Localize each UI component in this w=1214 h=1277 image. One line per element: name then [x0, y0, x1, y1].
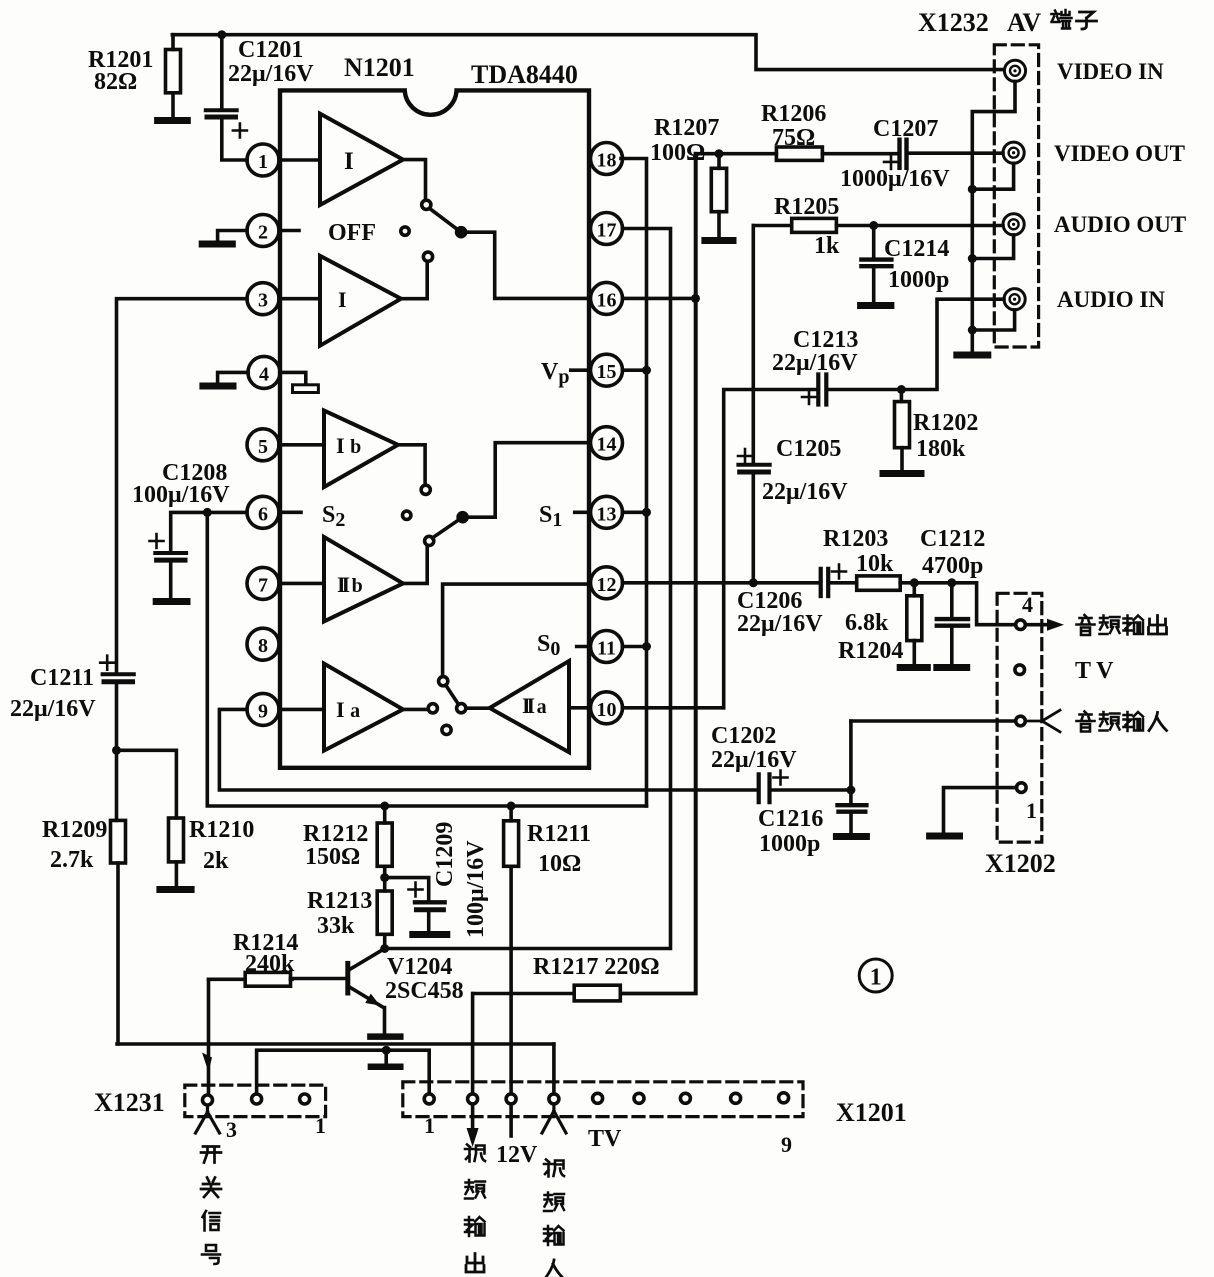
ground R1207	[705, 237, 733, 244]
X1231 pin 3(left)	[203, 1095, 213, 1105]
X1201 pin 6	[634, 1093, 644, 1103]
connector X1201 dashed box	[403, 1082, 803, 1117]
svg-text:R1206: R1206	[761, 101, 826, 127]
svg-text:10: 10	[597, 699, 617, 721]
resistor R1207	[650, 115, 727, 237]
pin 16	[591, 282, 623, 314]
svg-text:4: 4	[259, 363, 269, 385]
junction C1216/audio-in riser	[846, 786, 855, 795]
pin 3	[247, 283, 279, 315]
resistor R1204	[838, 583, 922, 664]
ground R1204	[900, 664, 927, 671]
svg-text:1: 1	[1026, 798, 1037, 823]
ground at pin 2	[202, 231, 247, 245]
amplifier II a (pin10, points left)	[490, 661, 569, 752]
svg-text:TV: TV	[588, 1126, 622, 1152]
junction pin13/rail	[642, 508, 651, 517]
wire switch a right contact to amp II a	[466, 706, 490, 710]
resistor R1209	[42, 750, 126, 1044]
svg-text:AUDIO IN: AUDIO IN	[1057, 287, 1165, 312]
wire S2 rail down and bottom bus to corner	[207, 512, 646, 806]
svg-text:4: 4	[1022, 592, 1033, 617]
pin 5	[247, 429, 279, 461]
junction R1205/C1214	[869, 221, 878, 230]
svg-text:TDA8440: TDA8440	[471, 60, 578, 89]
svg-text:6.8k: 6.8k	[845, 610, 889, 636]
X1202 pin 4 circle	[1016, 620, 1026, 630]
wire pin 9 to under-IC line	[219, 709, 757, 790]
svg-text:1: 1	[870, 965, 882, 991]
switch b top contact	[421, 485, 430, 494]
ground emitter bar	[370, 1033, 400, 1040]
svg-text:I b: I b	[336, 433, 361, 458]
chassis box symbol at pin4	[293, 385, 319, 393]
connector X1202 dashed box	[997, 593, 1042, 842]
wire pin4 stub to chassis box	[280, 372, 306, 382]
pin 2	[247, 215, 279, 247]
wire S0 stub	[577, 645, 590, 649]
wire VIDEO OUT jack to bus	[972, 163, 1013, 189]
resistor R1203	[823, 526, 952, 590]
svg-text:75Ω: 75Ω	[772, 125, 815, 151]
pin 7	[247, 567, 279, 599]
junction top rail / C1201	[217, 30, 226, 39]
pin 11	[591, 631, 623, 663]
svg-text:9: 9	[258, 700, 268, 722]
X1202 TV pin circle	[1015, 665, 1025, 675]
svg-text:C1212: C1212	[920, 526, 985, 552]
amplifier I a (pin9)	[324, 664, 403, 751]
X1202 audio-in pin circle	[1016, 716, 1026, 726]
svg-text:2.7k: 2.7k	[50, 847, 94, 873]
svg-text:100μ/16V: 100μ/16V	[463, 840, 489, 938]
label 视频输出 column	[465, 1145, 485, 1273]
pin 18	[591, 143, 623, 175]
resistor R1205	[753, 194, 1003, 259]
svg-text:22μ/16V: 22μ/16V	[10, 696, 96, 722]
svg-text:C1201: C1201	[238, 37, 303, 63]
capacitor C1202 electrolytic	[711, 723, 851, 802]
RCA jack AUDIO IN	[1004, 289, 1025, 310]
junction bus/video out	[968, 185, 977, 194]
svg-text:T V: T V	[1075, 658, 1114, 684]
svg-text:S1: S1	[539, 502, 562, 531]
svg-text:VIDEO IN: VIDEO IN	[1057, 59, 1164, 84]
amp I b output wire	[398, 445, 425, 485]
svg-text:100μ/16V: 100μ/16V	[132, 482, 230, 508]
svg-text:22μ/16V: 22μ/16V	[762, 479, 848, 505]
switch a top contact	[439, 677, 448, 686]
ground R1202	[883, 470, 921, 477]
junction bus/audio in	[968, 326, 977, 335]
RCA jack VIDEO OUT	[1003, 142, 1024, 163]
svg-text:C1205: C1205	[776, 436, 841, 462]
capacitor C1205 electrolytic	[738, 436, 848, 583]
pin 10	[591, 692, 623, 724]
svg-text:X1231: X1231	[94, 1088, 165, 1117]
junction pin15/rail	[642, 366, 651, 375]
AV terminal glyph (zi)	[1077, 12, 1097, 29]
svg-text:22μ/16V: 22μ/16V	[228, 61, 314, 87]
wire pin 11 to rail	[623, 645, 647, 649]
svg-text:2: 2	[258, 222, 268, 244]
RCA jack VIDEO IN	[1004, 60, 1025, 81]
X1201 pin 7	[680, 1093, 690, 1103]
svg-text:14: 14	[597, 434, 617, 456]
svg-text:12V: 12V	[496, 1142, 538, 1168]
audio in arrow fork	[1026, 710, 1060, 732]
svg-text:R1213: R1213	[307, 888, 372, 914]
wire pin12 internal to switch a	[443, 584, 589, 676]
wire video-out row	[696, 152, 898, 156]
svg-text:22μ/16V: 22μ/16V	[711, 747, 797, 773]
capacitor C1206 electrolytic	[737, 565, 857, 638]
svg-text:R1203: R1203	[823, 526, 888, 552]
svg-text:R1204: R1204	[838, 638, 903, 664]
svg-text:R1207: R1207	[654, 115, 719, 141]
svg-text:5: 5	[258, 436, 268, 458]
IC N1201 TDA8440 body outline with notch	[280, 90, 589, 767]
X1201 pin 1	[424, 1094, 434, 1104]
svg-text:33k: 33k	[317, 913, 355, 939]
svg-text:S2: S2	[322, 502, 345, 531]
wire C1208 corner to pin 6	[171, 512, 247, 550]
X1201 pin 2 video out	[468, 1094, 478, 1104]
label 音频输入	[1077, 712, 1167, 732]
wire rail695: R1206 wire down to R1217	[620, 154, 695, 994]
wire switch common to pin 16	[461, 232, 589, 298]
ground R1210	[160, 886, 191, 893]
svg-text:10Ω: 10Ω	[538, 851, 581, 877]
svg-text:15: 15	[597, 361, 617, 383]
svg-text:X1232: X1232	[918, 8, 989, 37]
svg-text:3: 3	[258, 290, 268, 312]
svg-text:12: 12	[597, 574, 617, 596]
pin 8	[247, 628, 279, 660]
AV terminal glyph (duan)	[1052, 10, 1072, 29]
wire switch signal riser	[207, 979, 211, 1093]
wire amp inputs stubs	[279, 160, 324, 709]
svg-text:X1202: X1202	[985, 849, 1056, 878]
wire pin 10 wrap	[623, 706, 724, 710]
svg-text:C1209: C1209	[432, 822, 458, 887]
capacitor C1208 electrolytic	[132, 460, 230, 598]
wire S1 stub	[575, 510, 590, 514]
capacitor C1207 electrolytic	[840, 116, 1003, 192]
switch lever (b group)	[432, 517, 462, 538]
resistor R1210	[169, 817, 255, 886]
switch lever (top group)	[430, 209, 461, 233]
X1202 pin 1 circle	[1017, 783, 1027, 793]
svg-text:I a: I a	[336, 697, 360, 722]
ground X1202 pin1	[930, 833, 960, 840]
svg-text:OFF: OFF	[328, 220, 376, 246]
svg-text:9: 9	[781, 1132, 792, 1157]
label 音频输出	[1077, 615, 1167, 635]
svg-text:R1202: R1202	[913, 410, 978, 436]
wire pin 13 to rail	[623, 510, 647, 514]
connector X1231 dashed box	[185, 1085, 326, 1117]
ground C1214	[861, 302, 891, 309]
switch group top: amp I output wire	[403, 160, 426, 200]
wire C1205 rail (R1205 left corner down to pin12 wire)	[751, 226, 755, 463]
junction C1211 line / R1210 branch	[112, 746, 121, 755]
ground at pin 4 (left)	[203, 372, 248, 386]
wire pin 16 to R1206 rail	[623, 297, 696, 301]
junction pin16/rail695	[691, 294, 700, 303]
capacitor C1214	[861, 226, 949, 303]
wire pin3 line bottom to TV video input	[552, 1044, 556, 1093]
svg-text:1000p: 1000p	[759, 831, 820, 857]
switch a right contact	[457, 704, 466, 713]
ground R1201	[158, 117, 188, 124]
svg-text:22μ/16V: 22μ/16V	[772, 350, 858, 376]
wire pin 17 down to collector	[386, 229, 671, 949]
pin 13	[591, 496, 623, 528]
video out arrow below pin 2	[467, 1104, 479, 1147]
switch b OFF contact	[403, 511, 411, 519]
amp I a output wire	[403, 708, 428, 712]
svg-text:AUDIO OUT: AUDIO OUT	[1054, 212, 1186, 237]
svg-text:1: 1	[258, 151, 268, 173]
svg-text:C1207: C1207	[873, 116, 938, 142]
X1201 pin 3 12V	[506, 1094, 516, 1104]
svg-text:17: 17	[597, 220, 617, 242]
wire VIDEO IN jack to ground bus	[972, 81, 1015, 351]
amplifier II b (pin7)	[324, 537, 403, 621]
svg-text:10k: 10k	[856, 551, 894, 577]
svg-text:1000μ/16V: 1000μ/16V	[840, 166, 950, 192]
svg-text:R1205: R1205	[774, 194, 839, 220]
ground C1216	[836, 833, 866, 840]
junction line2 ground	[382, 1046, 391, 1055]
svg-text:240k: 240k	[245, 951, 295, 977]
amp I (pin3) output wire to contact	[401, 262, 427, 298]
wire pin2 stub	[279, 229, 299, 233]
resistor R1212	[303, 806, 392, 891]
pin 14	[591, 427, 623, 459]
amplifier I (pin3)	[320, 256, 401, 346]
svg-text:180k: 180k	[916, 436, 966, 462]
label 开关信号 column	[201, 1147, 221, 1265]
svg-text:16: 16	[597, 289, 617, 311]
junction bus/R1211	[507, 802, 516, 811]
wire pin 18 to +12V rail	[621, 159, 647, 807]
capacitor C1201 electrolytic	[206, 35, 314, 160]
ground C1208	[156, 598, 187, 605]
capacitor C1209 electrolytic	[385, 822, 489, 938]
svg-text:2SC458: 2SC458	[385, 978, 464, 1004]
label 视频输入 column	[544, 1160, 564, 1277]
amp II b output wire to contact	[403, 547, 427, 584]
switch OFF center contact	[401, 227, 409, 235]
wire line2 X1231 pin2 to X1201 pin1	[257, 1050, 430, 1094]
svg-text:1k: 1k	[814, 233, 840, 259]
junction bus/R1212	[380, 802, 389, 811]
svg-text:3: 3	[226, 1117, 237, 1142]
wire audio input to pin	[851, 719, 1016, 723]
transistor V1204 2SC458	[291, 949, 464, 1033]
switch bottom contact circle	[423, 252, 432, 261]
wire amp II a input to pin 10	[569, 706, 589, 710]
svg-text:R1209: R1209	[42, 817, 107, 843]
svg-text:18: 18	[597, 150, 617, 172]
ground X1232 bus	[957, 352, 988, 359]
wire pin 15 to rail	[623, 368, 647, 372]
switch lever (a group)	[446, 685, 459, 704]
svg-text:Vp: Vp	[541, 359, 569, 388]
svg-text:II a: II a	[522, 693, 547, 718]
switch common dot (top group)	[457, 228, 466, 237]
X1231 pin 2	[252, 1094, 262, 1104]
svg-text:1: 1	[424, 1113, 435, 1138]
svg-text:1000p: 1000p	[888, 267, 949, 293]
svg-text:N1201: N1201	[344, 53, 415, 82]
svg-text:X1201: X1201	[836, 1098, 907, 1127]
fork arrow below X1231 pin	[196, 1105, 220, 1133]
junction C1208 wire / S2 rail	[203, 508, 212, 517]
junction pin11/rail	[642, 642, 651, 651]
junction R1207 top	[715, 149, 724, 158]
capacitor C1216	[758, 790, 866, 857]
resistor R1213	[307, 888, 392, 949]
switch top contact circle	[422, 200, 431, 209]
resistor R1214	[209, 930, 299, 986]
svg-text:VIDEO OUT: VIDEO OUT	[1054, 141, 1185, 166]
svg-text:R1217 220Ω: R1217 220Ω	[533, 954, 660, 980]
resistor R1202	[895, 390, 979, 471]
capacitor C1212	[920, 526, 985, 664]
wire AUDIO OUT jack to bus	[972, 235, 1013, 259]
switch b bottom contact	[425, 536, 434, 545]
svg-text:4700p: 4700p	[922, 553, 983, 579]
X1201 pin 9	[779, 1093, 789, 1103]
junction bus/audio out	[968, 254, 977, 263]
pin 6	[247, 496, 279, 528]
svg-text:R1211: R1211	[527, 821, 591, 847]
svg-text:II b: II b	[337, 572, 363, 597]
junction R1212/R1213/C1209	[380, 873, 389, 882]
wire pin-3 net bottom run to TV video input riser	[117, 1042, 554, 1046]
svg-text:8: 8	[258, 635, 268, 657]
wire pin 3 to left vertical rail	[117, 299, 248, 672]
fork arrow below X1201 pin4	[542, 1104, 566, 1133]
audio out arrow	[1026, 623, 1048, 627]
resistor R1217	[473, 154, 696, 1001]
capacitor C1211 electrolytic	[10, 656, 134, 751]
pin 12	[591, 567, 623, 599]
svg-text:C1202: C1202	[711, 723, 776, 749]
ground C1212	[937, 664, 967, 671]
svg-text:C1216: C1216	[758, 806, 823, 832]
svg-text:82Ω: 82Ω	[94, 69, 137, 95]
junction collector	[380, 944, 389, 953]
svg-text:7: 7	[258, 574, 268, 596]
svg-text:1: 1	[315, 1113, 326, 1138]
wire junction to R1210	[117, 750, 177, 818]
svg-text:I: I	[344, 148, 354, 175]
pin 1	[247, 144, 279, 176]
ground C1209	[413, 931, 447, 938]
wire top rail from R1201 to corner above X1232	[172, 35, 1003, 70]
wire AUDIO IN jack to C1213	[903, 299, 1004, 389]
switch a lower contact	[442, 725, 451, 734]
junction C1212 top	[947, 578, 956, 587]
svg-text:22μ/16V: 22μ/16V	[737, 611, 823, 637]
svg-text:11: 11	[597, 638, 616, 660]
svg-text:V1204: V1204	[387, 954, 452, 980]
ground line2	[371, 1050, 400, 1067]
X1201 pin 4 video in	[549, 1094, 559, 1104]
resistor R1206	[761, 101, 826, 160]
wire Vp stub	[571, 368, 590, 372]
svg-text:C1211: C1211	[30, 665, 94, 691]
switch a left contact	[428, 704, 437, 713]
connector X1232 dashed box	[994, 45, 1038, 347]
pin 9	[247, 693, 279, 725]
svg-text:C1214: C1214	[884, 236, 949, 262]
pin 4	[248, 356, 280, 388]
junction C1205/pin12 row	[749, 578, 758, 587]
switch common dot (b group)	[458, 513, 467, 522]
resistor R1211	[504, 806, 591, 1093]
svg-text:2k: 2k	[203, 848, 229, 874]
wire X1202 pin1 to ground	[944, 788, 1017, 832]
amplifier I (pin1)	[320, 114, 403, 205]
wire switch b common to pin 14	[463, 443, 589, 518]
junction C1213/R1202	[897, 385, 906, 394]
wire pin12 row to X1202 pin 4	[952, 583, 1016, 625]
circled figure number 1	[859, 959, 892, 992]
svg-text:150Ω: 150Ω	[305, 844, 360, 870]
X1231 pin 1(right)	[300, 1094, 310, 1104]
wire riser to audio input line	[849, 721, 853, 790]
wire pin6 stub	[279, 510, 301, 514]
capacitor C1213 electrolytic	[724, 327, 902, 708]
svg-text:S0: S0	[537, 631, 560, 660]
pin 15	[591, 354, 623, 386]
svg-text:I: I	[338, 287, 347, 312]
RCA jack AUDIO OUT	[1003, 214, 1024, 235]
junction R1203/R1204	[910, 578, 919, 587]
pin 17	[591, 213, 623, 245]
wire AUDIO IN jack to bus	[972, 310, 1014, 330]
amplifier I b (pin5)	[324, 411, 398, 488]
svg-text:AV: AV	[1007, 8, 1041, 37]
X1201 pin 8	[731, 1093, 741, 1103]
wire pin 12 row	[623, 581, 819, 585]
svg-text:13: 13	[597, 503, 617, 525]
resistor R1201	[88, 35, 181, 117]
svg-text:6: 6	[258, 503, 268, 525]
12V wire below pin 3	[509, 1104, 513, 1136]
wire video-out riser	[471, 994, 475, 1094]
svg-text:R1210: R1210	[189, 817, 254, 843]
X1201 pin 5	[593, 1093, 603, 1103]
arrowhead on switch signal line	[202, 1053, 212, 1073]
